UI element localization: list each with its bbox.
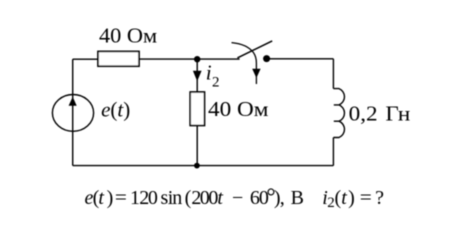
node junction dot (top of middle branch) bbox=[194, 56, 200, 62]
resistor R2 40 Ом (vertical) bbox=[190, 92, 204, 126]
svg-text:40 Ом: 40 Ом bbox=[208, 97, 269, 121]
source e(t) circle bbox=[52, 95, 93, 132]
wire: top middle segment bbox=[139, 58, 240, 60]
svg-text:40 Ом: 40 Ом bbox=[99, 24, 157, 48]
svg-text:i: i bbox=[206, 61, 212, 85]
switch motion arc bbox=[232, 43, 257, 84]
svg-text:e(t): e(t) bbox=[101, 98, 130, 122]
svg-text:e(t)=120sin(200t−60°),Вi2(t)=?: e(t)=120sin(200t−60°),Вi2(t)=? bbox=[85, 184, 385, 211]
svg-text:0,2: 0,2 bbox=[349, 102, 378, 126]
switch motion arrowhead bbox=[252, 69, 260, 78]
wire: middle branch lower bbox=[196, 126, 198, 166]
wire: right vertical upper bbox=[332, 59, 334, 89]
wire: left vertical bbox=[72, 59, 74, 165]
wire: top-left horizontal segment bbox=[73, 58, 98, 60]
switch blade bbox=[237, 41, 272, 58]
wire: right vertical lower bbox=[332, 138, 334, 166]
inductor L1 0,2 Гн bbox=[333, 89, 344, 138]
svg-text:Гн: Гн bbox=[385, 102, 410, 126]
wire: middle branch upper bbox=[196, 59, 198, 92]
source arrow bbox=[69, 97, 77, 106]
resistor R1 40 Ом (horizontal) bbox=[98, 51, 139, 66]
wire: bottom horizontal bbox=[73, 165, 334, 167]
wire: top right segment bbox=[267, 58, 334, 60]
current arrow i2 bbox=[193, 71, 202, 82]
node junction dot (bottom of middle branch) bbox=[194, 163, 200, 169]
svg-text:2: 2 bbox=[212, 74, 220, 90]
switch fixed contact dot bbox=[263, 55, 270, 62]
